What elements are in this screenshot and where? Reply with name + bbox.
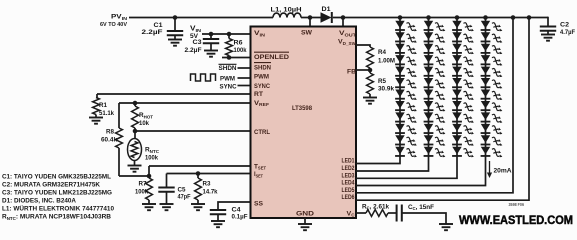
node junction R6 bottom — [227, 55, 232, 60]
LED string 2 diode 6 — [424, 78, 446, 89]
resistor R3 — [195, 178, 202, 200]
wire PWM — [238, 77, 251, 79]
svg-text:14.7k: 14.7k — [203, 188, 219, 195]
svg-text:LED2: LED2 — [342, 166, 356, 172]
wire VOUT pin — [342, 18, 344, 28]
node junction LED5 rail — [511, 15, 516, 20]
svg-text:LED3: LED3 — [342, 173, 356, 179]
LED string 4 diode 1 — [481, 21, 503, 32]
ground CC — [439, 224, 453, 230]
LED string 2 diode 10 — [424, 124, 446, 135]
ground R3 — [191, 204, 205, 210]
svg-text:C2: MURATA GRM32ER71H475K: C2: MURATA GRM32ER71H475K — [2, 182, 100, 189]
svg-text:R6: R6 — [234, 40, 243, 47]
LED string 4 diode 7 — [481, 90, 503, 101]
LED string 4 diode 10 — [481, 124, 503, 135]
wire VOUT rail — [333, 17, 548, 19]
wire LED string 4 — [356, 18, 486, 186]
wire R7 to ground — [148, 200, 150, 204]
annotation 20mA arrow — [489, 161, 491, 174]
svg-text:LED5: LED5 — [342, 188, 356, 194]
ground R5 — [363, 98, 377, 104]
node junction R3 — [196, 171, 201, 176]
wire R4 R5 junction — [369, 68, 371, 73]
wire R5 to ground — [369, 94, 371, 98]
svg-text:SYNC: SYNC — [220, 83, 237, 90]
svg-text:4.7µF: 4.7µF — [560, 29, 575, 36]
LED string 4 diode 6 — [481, 78, 503, 89]
LED string 1 diode 8 — [395, 101, 417, 112]
resistor R8 — [116, 128, 123, 148]
wire TSET riser — [148, 166, 150, 176]
LED string 3 diode 3 — [452, 44, 474, 55]
wire R6 to OPENLED — [222, 57, 251, 59]
svg-text:100k: 100k — [234, 47, 247, 54]
svg-text:100k: 100k — [145, 155, 159, 162]
wire C1 to ground — [174, 35, 176, 39]
node junction LED string 3 top — [455, 15, 460, 20]
wire R1 to ground — [95, 115, 97, 118]
wire LED string 3 — [356, 18, 457, 179]
LED string 3 diode 10 — [452, 124, 474, 135]
wire R3 lead — [197, 174, 199, 179]
LED string 3 diode 12 — [452, 147, 474, 158]
svg-text:6V TO 40V: 6V TO 40V — [100, 22, 127, 28]
LED string 1 diode 11 — [395, 135, 417, 146]
wire SW pin — [309, 18, 311, 28]
node junction CTRL — [133, 129, 138, 134]
wire CTRL — [135, 130, 251, 132]
svg-text:SW: SW — [301, 30, 313, 37]
LED string 4 diode 3 — [481, 44, 503, 55]
svg-text:C5: C5 — [178, 186, 187, 193]
wire R8 bottom lead — [118, 148, 120, 176]
svg-text:10k: 10k — [139, 120, 150, 127]
svg-text:D1: DIODES, INC. B240A: D1: DIODES, INC. B240A — [2, 198, 76, 205]
node VOUT junction — [341, 15, 346, 20]
wire CC to ground — [402, 213, 446, 224]
LED string 2 diode 12 — [424, 147, 446, 158]
svg-text:OPENLED: OPENLED — [254, 54, 289, 61]
LED string 3 diode 2 — [452, 32, 474, 43]
svg-text:R5: R5 — [378, 78, 387, 85]
svg-text:PWM: PWM — [220, 75, 235, 82]
LED string 1 diode 4 — [395, 55, 417, 66]
ground C5 — [160, 204, 174, 210]
svg-text:0.1µF: 0.1µF — [232, 214, 248, 221]
wire C1 lead — [174, 18, 176, 32]
ground C2 — [541, 35, 555, 41]
node SW junction — [308, 15, 313, 20]
wire VD_SW to R4 — [356, 45, 370, 47]
svg-text:CTRL: CTRL — [254, 129, 270, 136]
node junction R6 top — [227, 32, 232, 37]
svg-text:C1: C1 — [154, 22, 163, 29]
LED string 3 diode 6 — [452, 78, 474, 89]
node junction LED string 4 top — [483, 15, 488, 20]
ground C1 — [168, 40, 182, 46]
ground R7 — [142, 204, 156, 210]
LED string 2 diode 3 — [424, 44, 446, 55]
svg-text:GND: GND — [296, 210, 314, 217]
LED string 1 diode 10 — [395, 124, 417, 135]
capacitor C1 — [167, 31, 183, 35]
wire C3 to ground — [210, 43, 212, 50]
svg-text:60.4k: 60.4k — [101, 137, 118, 144]
LED string 1 diode 7 — [395, 90, 417, 101]
wire GND pin — [304, 218, 306, 224]
node junction RHOT top — [133, 101, 138, 106]
wire RHOT to RNTC — [134, 128, 136, 139]
node junction LED6 rail — [527, 15, 532, 20]
wire R8 to R7 junction — [119, 175, 149, 177]
diode D1 — [321, 12, 332, 23]
LED string 1 diode 9 — [395, 112, 417, 123]
node junction LED string 1 top — [398, 15, 403, 20]
LED string 4 diode 12 — [481, 147, 503, 158]
node junction TSET — [147, 174, 152, 179]
LED string 3 diode 9 — [452, 112, 474, 123]
resistor R5 — [367, 73, 374, 94]
capacitor C3 — [203, 39, 219, 43]
LED string 3 diode 8 — [452, 101, 474, 112]
svg-text:R1: R1 — [99, 102, 108, 109]
LED string 2 diode 7 — [424, 90, 446, 101]
wire SHDN — [238, 67, 251, 69]
wire LED string 2 — [356, 18, 429, 172]
wire C2 to ground — [547, 31, 549, 35]
wire TSET — [149, 165, 251, 167]
LED string 2 diode 8 — [424, 101, 446, 112]
LED string 2 diode 11 — [424, 135, 446, 146]
svg-text:C1: TAIYO YUDEN GMK325BJ225ML: C1: TAIYO YUDEN GMK325BJ225ML — [2, 174, 111, 181]
LED string 1 diode 12 — [395, 147, 417, 158]
inductor L1 — [273, 13, 301, 17]
wire LED string 1 — [356, 18, 400, 164]
wire LED5 return — [356, 18, 513, 193]
wire R3 to ground — [197, 200, 199, 204]
resistor R4 — [367, 47, 374, 68]
wire RNTC to ground — [134, 161, 136, 166]
op-amp U1 pin labels — [254, 30, 357, 218]
node junction C3 — [209, 32, 214, 37]
LED string 4 diode 4 — [481, 55, 503, 66]
resistor R7 — [146, 178, 153, 200]
LED string 1 diode 5 — [395, 67, 417, 78]
svg-text:100k: 100k — [135, 188, 149, 195]
LED string 2 diode 5 — [424, 67, 446, 78]
wire PVIN to L1 — [129, 17, 273, 19]
node junction LED string 2 top — [426, 15, 431, 20]
LED string 4 diode 9 — [481, 112, 503, 123]
svg-text:WWW.EASTLED.COM: WWW.EASTLED.COM — [459, 213, 573, 227]
wire C3 lead — [210, 34, 212, 39]
svg-text:R3: R3 — [203, 181, 212, 188]
signal PWM waveform — [191, 74, 216, 81]
LED string 3 diode 7 — [452, 90, 474, 101]
svg-text:C3: TAIYO YUDEN LMK212BJ225MG: C3: TAIYO YUDEN LMK212BJ225MG — [2, 190, 112, 197]
svg-text:R4: R4 — [378, 49, 387, 56]
LED string 1 diode 2 — [395, 32, 417, 43]
wire RC to CC — [388, 212, 397, 214]
wire ISET — [167, 173, 251, 175]
wire VIN to IC — [202, 33, 251, 35]
resistor R6 — [226, 39, 233, 56]
svg-text:L1, 10µH: L1, 10µH — [271, 6, 303, 13]
wire VREF — [119, 102, 251, 104]
svg-text:20mA: 20mA — [494, 168, 513, 175]
resistor RC — [366, 210, 388, 217]
wire C2 lead — [547, 17, 549, 27]
svg-text:C3: C3 — [193, 39, 202, 46]
wire R1 lead — [96, 94, 98, 98]
svg-text:51.1k: 51.1k — [99, 110, 115, 117]
node junction FB — [368, 68, 373, 73]
wire R6 top lead — [228, 34, 230, 39]
svg-text:SS: SS — [254, 200, 263, 207]
svg-text:30.9k: 30.9k — [378, 85, 395, 92]
wire RT — [97, 93, 251, 95]
LED string 4 diode 11 — [481, 135, 503, 146]
LED string 2 diode 2 — [424, 32, 446, 43]
svg-text:3598 F06: 3598 F06 — [509, 202, 525, 207]
wire R8 top lead — [118, 103, 120, 128]
capacitor CC — [397, 205, 402, 222]
svg-text:RC, 2.61k: RC, 2.61k — [362, 203, 390, 210]
wire C5 to ground — [166, 192, 168, 204]
svg-text:PWM: PWM — [254, 74, 269, 81]
resistor R1 — [93, 98, 100, 115]
svg-text:2.2µF: 2.2µF — [185, 47, 202, 54]
svg-text:LED1: LED1 — [342, 159, 356, 165]
svg-text:R8: R8 — [106, 129, 115, 136]
LED string 1 diode 1 — [395, 21, 417, 32]
svg-text:LED6: LED6 — [342, 195, 356, 201]
thermistor RNTC — [128, 139, 142, 161]
op-amp U1 LT3598 body — [251, 27, 357, 219]
capacitor C2 — [540, 27, 556, 31]
svg-text:RNTC: MURATA NCP18WF104J03RB: RNTC: MURATA NCP18WF104J03RB — [2, 214, 111, 221]
svg-text:RT: RT — [254, 91, 263, 98]
LED string 1 diode 6 — [395, 78, 417, 89]
svg-text:47pF: 47pF — [178, 194, 191, 201]
svg-text:FB: FB — [347, 69, 356, 76]
svg-text:C4: C4 — [232, 206, 242, 213]
svg-text:SHDN: SHDN — [254, 64, 271, 71]
wire LED6 return — [356, 18, 529, 201]
svg-text:D1: D1 — [322, 6, 332, 13]
wire RHOT top lead — [134, 103, 136, 106]
svg-text:SHDN: SHDN — [219, 65, 237, 72]
wire FB — [356, 69, 370, 71]
ground GND pin — [298, 224, 312, 230]
LED string 1 diode 3 — [395, 44, 417, 55]
LED string 2 diode 4 — [424, 55, 446, 66]
ground C3 — [204, 51, 218, 57]
capacitor C5 — [158, 188, 174, 192]
LED string 3 diode 11 — [452, 135, 474, 146]
svg-text:R7: R7 — [139, 181, 148, 188]
svg-text:2.2µF: 2.2µF — [142, 29, 163, 36]
wire SYNC — [238, 85, 251, 87]
LED string 4 diode 5 — [481, 67, 503, 78]
svg-text:LED4: LED4 — [342, 181, 356, 187]
ground C4 — [211, 221, 225, 227]
ground RNTC — [128, 166, 142, 172]
wire C4 to ground — [217, 214, 219, 221]
LED string 2 diode 1 — [424, 21, 446, 32]
svg-text:L1: WÜRTH ELEKTRONIK 744777410: L1: WÜRTH ELEKTRONIK 744777410 — [2, 204, 114, 213]
svg-text:C2: C2 — [560, 21, 570, 28]
ground R1 — [89, 118, 103, 124]
wire VC — [356, 212, 366, 214]
capacitor C4 — [210, 210, 226, 214]
svg-text:CC, 15nF: CC, 15nF — [408, 204, 434, 211]
LED string 4 diode 2 — [481, 32, 503, 43]
LED string 3 diode 4 — [452, 55, 474, 66]
svg-text:1.00M: 1.00M — [378, 57, 395, 64]
LED string 3 diode 5 — [452, 67, 474, 78]
LED string 3 diode 1 — [452, 21, 474, 32]
wire L1 to D1 — [301, 17, 321, 19]
LED string 2 diode 9 — [424, 112, 446, 123]
svg-text:LT3598: LT3598 — [292, 105, 312, 112]
resistor RHOT — [132, 106, 139, 128]
wire SS — [218, 202, 251, 210]
svg-text:SYNC: SYNC — [254, 83, 270, 90]
wire C5 lead — [166, 174, 168, 188]
node junction C1 — [173, 15, 178, 20]
LED string 4 diode 8 — [481, 101, 503, 112]
